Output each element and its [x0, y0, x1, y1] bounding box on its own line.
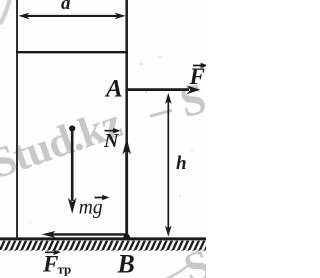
label F vector: [189, 64, 206, 89]
watermark Stud.kz main row: [0, 73, 211, 188]
svg-text:h: h: [176, 153, 187, 174]
svg-text:N: N: [103, 130, 120, 152]
block right wall: [125, 0, 128, 237]
svg-text:mg: mg: [79, 198, 103, 219]
svg-text:тр: тр: [58, 262, 72, 277]
dimension h line: [165, 93, 172, 237]
svg-text:F: F: [189, 64, 205, 89]
watermark bottom-right S: [166, 239, 216, 278]
force N arrow: [122, 138, 131, 237]
watermark top-left letter fragment: [0, 0, 10, 24]
label F friction vector: [42, 251, 71, 277]
dimension a arrow: [18, 13, 125, 20]
label mg vector: [79, 196, 107, 219]
friction force arrow: [42, 231, 127, 238]
scan noise specks: [29, 56, 193, 223]
svg-text:A: A: [104, 76, 123, 103]
ground surface line: [0, 237, 206, 240]
block left wall: [16, 0, 18, 239]
force F arrow: [127, 85, 200, 94]
block top edge: [16, 51, 128, 53]
node B dot: [123, 234, 130, 241]
svg-text:B: B: [117, 249, 135, 278]
svg-text:F: F: [42, 252, 58, 277]
svg-text:a: a: [61, 0, 71, 14]
force mg arrow with pivot dot: [68, 125, 77, 213]
label N vector: [103, 129, 120, 152]
